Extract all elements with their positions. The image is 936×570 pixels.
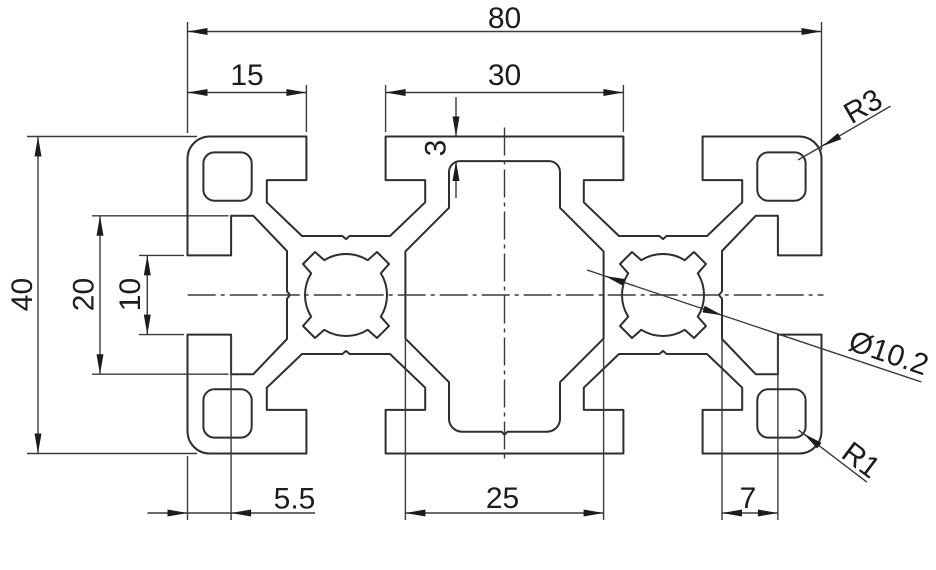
ext lines 30 — [385, 85, 387, 132]
leader Ø10.2 — [587, 270, 922, 382]
dim line 10 — [146, 255, 148, 334]
dim 3 vertical lines — [455, 97, 457, 137]
dim line 25 — [405, 512, 603, 514]
40 arrows — [35, 137, 42, 157]
svg-text:7: 7 — [740, 482, 757, 515]
dim line 20 — [99, 216, 101, 374]
svg-text:5.5: 5.5 — [274, 483, 316, 516]
dim line 15 — [188, 92, 307, 94]
80 arrows — [188, 28, 208, 35]
ext lines 40 — [27, 136, 197, 138]
3 arrows — [453, 117, 460, 137]
dim 7 line — [722, 512, 778, 514]
corner hole top-left — [203, 152, 251, 200]
10 arrows — [144, 255, 151, 275]
15 arrows — [188, 89, 208, 96]
dim line 30 — [386, 92, 624, 94]
leader R1 — [798, 430, 866, 482]
svg-text:25: 25 — [486, 482, 519, 515]
leader R3 — [798, 106, 891, 160]
R1 leader arrow — [804, 434, 822, 449]
Ø10.2 arrows — [605, 276, 625, 286]
centerlines — [188, 128, 824, 463]
ext lines 20 — [92, 215, 229, 217]
dim line 80 — [188, 31, 822, 33]
ext lines 25 — [404, 340, 406, 520]
central cavity — [405, 161, 603, 435]
svg-text:10: 10 — [114, 278, 147, 311]
dim 5.5 line with tails — [147, 512, 315, 514]
ext lines 80 — [187, 22, 189, 133]
svg-text:40: 40 — [6, 278, 39, 311]
left core bore Ø10.2 with notches — [303, 252, 389, 338]
25 arrows — [405, 510, 425, 517]
ext lines 7 — [721, 340, 723, 520]
svg-text:15: 15 — [230, 59, 263, 92]
svg-text:30: 30 — [488, 59, 521, 92]
corner hole top-right — [757, 152, 805, 200]
profile outer contour with T-slots — [188, 137, 822, 454]
5.5 arrows (outside, pointing inward) — [168, 510, 188, 517]
7 arrows — [722, 510, 742, 517]
ext lines 15 — [305, 85, 307, 132]
ext lines bottom 5.5 — [187, 456, 189, 520]
right core bore Ø10.2 with notches — [620, 252, 706, 338]
corner hole bottom-left — [203, 389, 251, 437]
dim line 40 — [37, 137, 39, 454]
ext lines 10 — [139, 254, 184, 256]
horizontal centerline — [188, 294, 824, 296]
R3 leader arrow — [822, 133, 841, 146]
20 arrows — [97, 216, 104, 236]
corner hole bottom-right — [757, 389, 805, 437]
30 arrows — [386, 89, 406, 96]
svg-text:20: 20 — [68, 278, 101, 311]
vertical centerline — [504, 128, 506, 463]
svg-text:80: 80 — [488, 2, 521, 35]
svg-text:3: 3 — [420, 140, 453, 157]
arrowheads — [35, 28, 842, 517]
